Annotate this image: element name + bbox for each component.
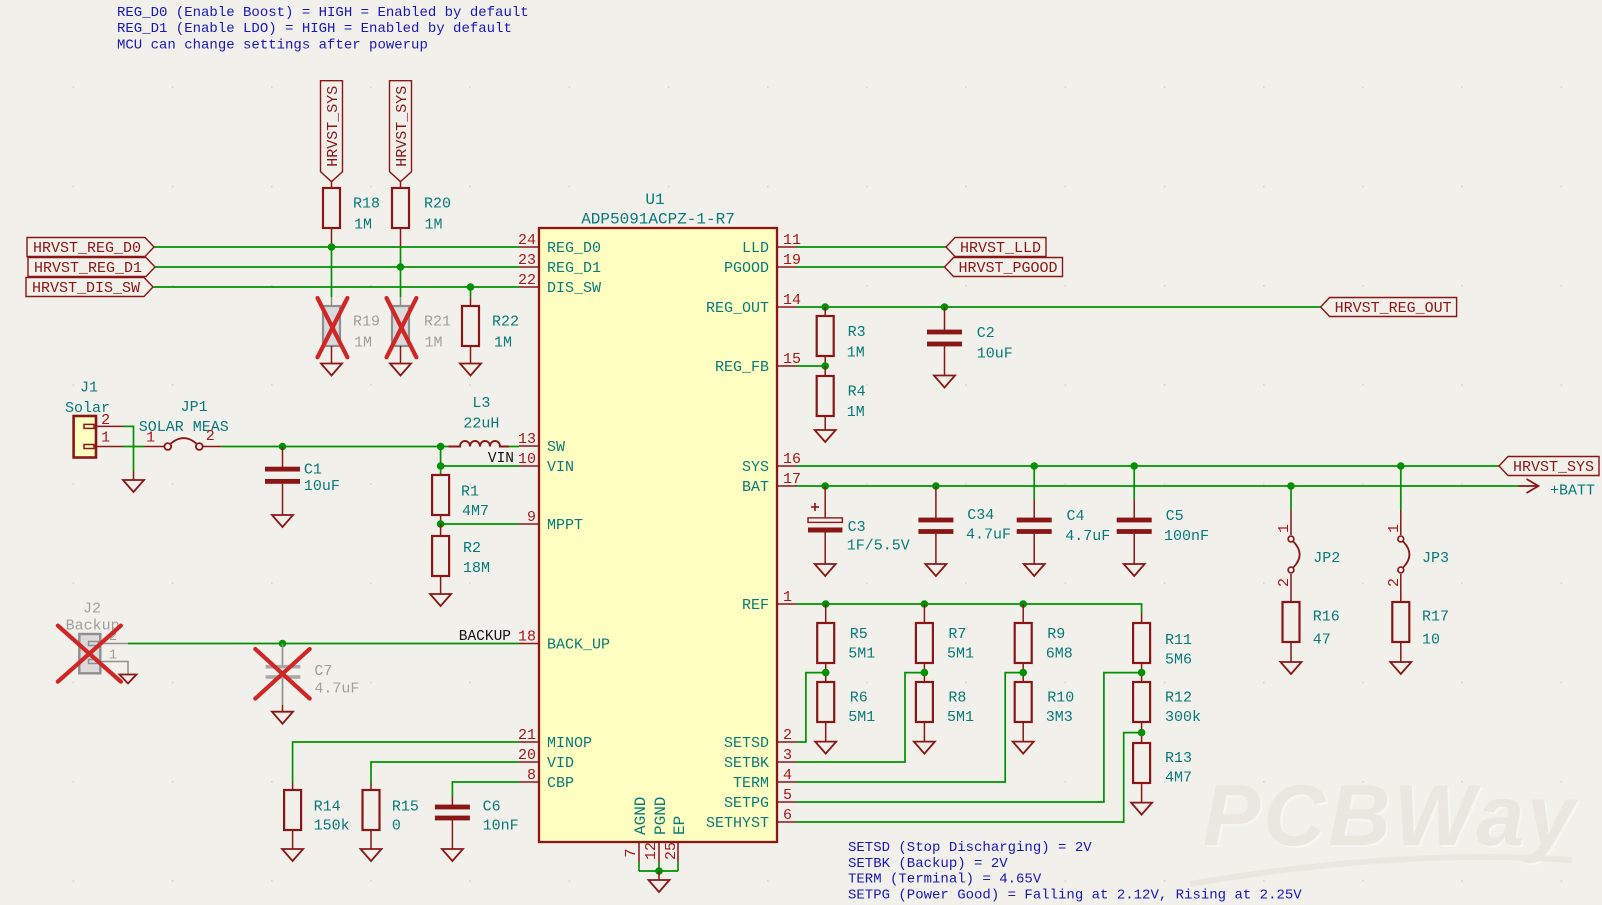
svg-text:J1: J1 (80, 380, 98, 397)
svg-text:2: 2 (1386, 578, 1403, 587)
junction C7 tap (279, 640, 287, 648)
svg-text:R4: R4 (848, 384, 866, 401)
svg-text:R13: R13 (1165, 750, 1192, 767)
svg-text:SETSD (Stop Discharging) = 2V: SETSD (Stop Discharging) = 2V (848, 840, 1092, 856)
C7 ground stub (282, 705, 284, 712)
svg-text:22: 22 (518, 272, 536, 289)
junction REF at x=1023.2 (1019, 600, 1027, 608)
ground under R4 (815, 430, 836, 442)
ground under R17 (1390, 662, 1411, 674)
svg-text:JP3: JP3 (1422, 550, 1449, 567)
junction C1 tap (279, 443, 287, 451)
U1 pin 18 BACK_UP (left) (518, 629, 610, 654)
junction DIS_SW/R22 (467, 283, 475, 291)
svg-text:6: 6 (783, 807, 792, 824)
wire MPPT to pin 9 (441, 523, 519, 525)
U1 pin 23 REG_D1 (left) (518, 252, 601, 277)
svg-text:R1: R1 (461, 484, 479, 501)
U1 pin 2 SETSD (right) (724, 727, 797, 752)
wire J2 to pin 18 BACK_UP (128, 643, 519, 645)
net label VIN (488, 451, 514, 467)
svg-text:R7: R7 (948, 626, 966, 643)
resistor R15 (363, 783, 419, 849)
svg-text:HRVST_REG_D1: HRVST_REG_D1 (34, 260, 142, 277)
junction SYS/JP3 (1397, 462, 1405, 470)
resistor R20 (392, 182, 451, 248)
junction BAT/C34 (932, 482, 940, 490)
wire REG_D0 net down to R19 (331, 247, 333, 297)
svg-text:PGOOD: PGOOD (724, 260, 769, 277)
svg-text:8: 8 (527, 767, 536, 784)
svg-text:DIS_SW: DIS_SW (547, 280, 601, 297)
ground under C1 (272, 515, 293, 527)
wire JP1 to L3 (VIN node) (222, 446, 453, 448)
net label HRVST_PGOOD (945, 258, 1063, 277)
ground under U1 (649, 880, 670, 892)
svg-text:1: 1 (783, 589, 792, 606)
net label HRVST_REG_OUT (1321, 298, 1457, 317)
svg-text:L3: L3 (472, 395, 490, 412)
solder jumper JP2 (1276, 486, 1340, 602)
wire pin 1 REF rail (797, 604, 1142, 613)
wire R11/R12 tap to pin 5 (797, 673, 1142, 802)
U1 pin 16 SYS (right) (742, 451, 801, 476)
U1 pin 13 SW (left) (518, 431, 565, 456)
svg-text:HRVST_DIS_SW: HRVST_DIS_SW (32, 280, 140, 297)
wire VIN to pin 10 (441, 465, 519, 467)
U1 pin 12 PGND (bottom) (643, 797, 670, 871)
J1 pin 1 stub (96, 430, 123, 447)
resistor R6 (817, 682, 875, 742)
ground at J2 pin 1 (120, 675, 137, 684)
resistor R10 (1015, 682, 1075, 742)
wire R20 to REG_D1 net (400, 248, 402, 267)
svg-text:1M: 1M (354, 217, 372, 234)
ground under C4 (1024, 564, 1045, 576)
J1 pin 2 stub (96, 412, 123, 429)
svg-text:REG_D0: REG_D0 (547, 240, 601, 257)
ground under C7 (272, 712, 293, 724)
U1 pin 15 REG_FB (right) (715, 351, 801, 376)
svg-text:1M: 1M (425, 217, 443, 234)
svg-text:4M7: 4M7 (462, 503, 489, 520)
wire R5/R6 tap to pin 2 (797, 673, 826, 742)
ground under R10 (1013, 742, 1034, 754)
svg-text:4.7uF: 4.7uF (966, 527, 1011, 544)
svg-text:SETBK (Backup) = 2V: SETBK (Backup) = 2V (848, 856, 1008, 872)
wire J1 pin2 to ground (123, 426, 134, 471)
svg-text:MINOP: MINOP (547, 735, 592, 752)
svg-text:47: 47 (1313, 632, 1331, 649)
junction SYS/C5 (1130, 462, 1138, 470)
svg-text:VID: VID (547, 755, 574, 772)
resistor R1 (432, 466, 489, 524)
wire HRVST_REG_D1 to pin 23 (155, 266, 519, 268)
wire DIS_SW net down to R22 (470, 287, 472, 297)
svg-text:C4: C4 (1067, 508, 1085, 525)
resistor R8 (916, 682, 974, 742)
svg-text:1M: 1M (354, 335, 372, 352)
svg-text:C2: C2 (977, 325, 995, 342)
svg-text:3: 3 (783, 747, 792, 764)
junction R7/R8 (921, 669, 929, 677)
svg-text:4.7uF: 4.7uF (1065, 528, 1110, 545)
svg-text:300k: 300k (1165, 709, 1201, 726)
svg-text:HRVST_REG_D0: HRVST_REG_D0 (33, 240, 141, 257)
svg-text:10uF: 10uF (977, 346, 1013, 363)
wire pin 16 SYS rail (797, 465, 1500, 467)
wire pin 19 to HRVST_PGOOD (797, 266, 945, 268)
capacitor C7 (DNP) (266, 644, 360, 706)
svg-text:12: 12 (643, 842, 660, 860)
svg-text:J2: J2 (83, 601, 101, 618)
solder jumper JP3 (1386, 466, 1449, 602)
svg-text:REG_D0 (Enable Boost) = HIGH =: REG_D0 (Enable Boost) = HIGH = Enabled b… (117, 5, 529, 21)
svg-text:HRVST_REG_OUT: HRVST_REG_OUT (1335, 300, 1452, 317)
svg-text:HRVST_SYS: HRVST_SYS (1513, 459, 1594, 476)
svg-text:MPPT: MPPT (547, 517, 583, 534)
wire REG_D1 net down to R21 (400, 267, 402, 297)
svg-text:1: 1 (1386, 524, 1403, 533)
U1 pin 10 VIN (left) (518, 451, 574, 476)
svg-text:SETPG: SETPG (724, 795, 769, 812)
svg-text:24: 24 (518, 232, 536, 249)
svg-text:5M1: 5M1 (848, 646, 875, 663)
svg-text:BAT: BAT (742, 479, 769, 496)
svg-text:1F/5.5V: 1F/5.5V (847, 538, 910, 555)
net label HRVST_REG_D1 (28, 258, 155, 277)
net label HRVST_LLD (946, 238, 1046, 257)
wire HRVST_REG_D0 to pin 24 (154, 246, 519, 248)
capacitor C5 (1117, 466, 1209, 564)
svg-text:2: 2 (206, 428, 215, 445)
resistor R5 (817, 604, 875, 682)
svg-text:PCBWay: PCBWay (1203, 768, 1579, 864)
svg-text:REG_OUT: REG_OUT (706, 300, 769, 317)
wire AGND/PGND/EP tie (639, 870, 678, 872)
U1 pin 1 REF (right) (742, 589, 797, 614)
svg-text:ADP5091ACPZ-1-R7: ADP5091ACPZ-1-R7 (581, 211, 735, 229)
junction MPPT (437, 520, 445, 528)
svg-text:2: 2 (101, 412, 110, 429)
DNP cross over R19 (318, 298, 348, 357)
svg-text:25: 25 (663, 842, 680, 860)
J1 pin2 ground stub (133, 471, 135, 480)
U1 pin 4 TERM (right) (733, 767, 797, 792)
junction REG_FB (821, 362, 829, 370)
capacitor C1 (265, 447, 340, 516)
svg-text:C6: C6 (483, 799, 501, 816)
svg-text:1: 1 (101, 430, 110, 447)
svg-text:+BATT: +BATT (1550, 483, 1595, 500)
DNP cross over R21 (387, 298, 417, 357)
wire pin 15 REG_FB to R3/R4 (797, 365, 826, 367)
svg-text:SETHYST: SETHYST (706, 815, 769, 832)
svg-text:1: 1 (146, 430, 155, 447)
svg-text:CBP: CBP (547, 775, 574, 792)
svg-text:R16: R16 (1313, 609, 1340, 626)
svg-text:R14: R14 (314, 799, 341, 816)
junction REF at x=924.4 (921, 600, 929, 608)
svg-text:2: 2 (783, 727, 792, 744)
capacitor C2 (927, 307, 1013, 376)
junction VIN (437, 462, 445, 470)
svg-text:5: 5 (783, 787, 792, 804)
power flag HRVST_SYS (above R18) (321, 81, 343, 182)
capacitor C3 1F/5.5V (polarized) (808, 486, 910, 564)
U1 pin 8 CBP (left) (519, 767, 574, 792)
svg-text:23: 23 (518, 252, 536, 269)
capacitor C6 (435, 797, 519, 849)
svg-text:1: 1 (109, 648, 117, 664)
net label HRVST_REG_D0 (27, 238, 154, 257)
svg-text:R18: R18 (353, 196, 380, 213)
svg-text:VIN: VIN (488, 451, 514, 467)
power flag HRVST_SYS (above R20) (390, 81, 412, 182)
svg-text:10: 10 (1422, 632, 1440, 649)
connector J2 Backup (DNP) (66, 601, 128, 675)
PCBWay watermark (1190, 768, 1581, 884)
ground at J1 pin 2 (123, 480, 144, 492)
note: REG_D0/REG_D1/MCU comments (blue text top-left) (117, 5, 529, 53)
junction REG_D1/R20/R21 (397, 263, 405, 271)
U1 pin 21 MINOP (left) (518, 727, 592, 752)
junction SYS/C4 (1030, 462, 1038, 470)
wire pin 8 CBP to C6 (452, 782, 519, 797)
svg-text:VIN: VIN (547, 459, 574, 476)
svg-text:4: 4 (783, 767, 792, 784)
wire pin 14 REG_OUT to HRVST_REG_OUT (797, 306, 1321, 308)
net label BACKUP (459, 629, 511, 645)
resistor R16 (1283, 602, 1340, 662)
svg-text:SW: SW (547, 439, 565, 456)
svg-text:6M8: 6M8 (1046, 646, 1073, 663)
ground under C6 (442, 849, 463, 861)
svg-text:R22: R22 (492, 314, 519, 331)
capacitor C4 (1017, 466, 1111, 564)
svg-text:PGND: PGND (652, 797, 670, 835)
connector J1 Solar (65, 380, 110, 458)
svg-text:R6: R6 (850, 690, 868, 707)
svg-text:10nF: 10nF (483, 818, 519, 835)
svg-text:5M6: 5M6 (1165, 652, 1192, 669)
svg-text:5M1: 5M1 (947, 646, 974, 663)
ground under C34 (925, 564, 946, 576)
DNP cross over J2 (58, 626, 121, 682)
svg-text:JP2: JP2 (1313, 550, 1340, 567)
svg-text:18M: 18M (463, 560, 490, 577)
svg-text:5M1: 5M1 (848, 709, 875, 726)
svg-text:HRVST_PGOOD: HRVST_PGOOD (959, 260, 1058, 277)
svg-text:TERM: TERM (733, 775, 769, 792)
U1 pin 6 SETHYST (right) (706, 807, 797, 832)
svg-text:REF: REF (742, 597, 769, 614)
U1 pin 22 DIS_SW (left) (518, 272, 601, 297)
svg-text:13: 13 (518, 431, 536, 448)
ground under R8 (914, 742, 935, 754)
U1 pin 17 BAT (right) (742, 471, 801, 496)
resistor R4 (817, 366, 866, 430)
junction L3/R1 tap (437, 443, 445, 451)
junction R12/R13 (1138, 729, 1146, 737)
svg-text:10: 10 (518, 451, 536, 468)
resistor R17 (1392, 602, 1449, 662)
svg-text:BACK_UP: BACK_UP (547, 637, 610, 654)
resistor R3 (817, 307, 866, 366)
svg-text:REG_D1: REG_D1 (547, 260, 601, 277)
svg-text:9: 9 (527, 509, 536, 526)
svg-text:R15: R15 (392, 799, 419, 816)
svg-text:R19: R19 (353, 314, 380, 331)
solder jumper JP1 SOLAR MEAS (139, 399, 229, 450)
svg-text:1M: 1M (494, 335, 512, 352)
svg-text:R2: R2 (463, 540, 481, 557)
svg-text:REG_D1 (Enable LDO) = HIGH = E: REG_D1 (Enable LDO) = HIGH = Enabled by … (117, 21, 512, 37)
junction REG_OUT/R3 (821, 303, 829, 311)
svg-text:R3: R3 (848, 324, 866, 341)
svg-text:SETBK: SETBK (724, 755, 769, 772)
svg-text:C7: C7 (314, 663, 332, 680)
ground under R13 (1131, 803, 1152, 815)
wire pin 11 to HRVST_LLD (797, 246, 947, 248)
U1 pin 5 SETPG (right) (724, 787, 797, 812)
svg-text:HRVST_LLD: HRVST_LLD (960, 240, 1041, 257)
ground under R19 (321, 364, 342, 376)
wire pin 17 BAT rail (797, 485, 1519, 487)
svg-text:22uH: 22uH (463, 416, 499, 433)
svg-text:2: 2 (1276, 578, 1293, 587)
svg-text:HRVST_SYS: HRVST_SYS (394, 86, 411, 167)
wire VIN node down to R1 (440, 447, 442, 467)
wire J1 pin1 to JP1 (123, 446, 144, 448)
svg-text:4.7uF: 4.7uF (314, 681, 359, 698)
net label HRVST_DIS_SW (26, 278, 153, 297)
junction REG_OUT/C2 (941, 303, 949, 311)
svg-text:C34: C34 (967, 507, 994, 524)
svg-text:4M7: 4M7 (1165, 770, 1192, 787)
hier arrow +BATT (1518, 479, 1595, 500)
svg-text:LLD: LLD (742, 240, 769, 257)
resistor R18 (323, 182, 380, 247)
svg-text:MCU can change settings after: MCU can change settings after powerup (117, 37, 428, 53)
junction REF at x=825.7 (822, 600, 830, 608)
U1 pin 9 MPPT (left) (519, 509, 583, 534)
U1 pin 11 LLD (right) (742, 232, 801, 257)
wire pin 21 MINOP to R14 (293, 742, 519, 783)
svg-text:SETPG (Power Good) = Falling a: SETPG (Power Good) = Falling at 2.12V, R… (848, 887, 1302, 903)
junction BAT/JP2 (1287, 482, 1295, 490)
junction BAT/C3 (821, 482, 829, 490)
resistor R19 (DNP) (323, 297, 380, 364)
wire pin 20 VID to R15 (371, 762, 519, 783)
resistor R7 (916, 604, 974, 682)
junction R9/R10 (1019, 669, 1027, 677)
svg-text:21: 21 (518, 727, 536, 744)
junction AGND/PGND/EP (655, 867, 663, 875)
svg-text:R8: R8 (948, 690, 966, 707)
svg-text:R11: R11 (1165, 632, 1192, 649)
resistor R11 (1133, 613, 1192, 682)
wire R7/R8 tap to pin 3 (797, 673, 925, 762)
svg-text:20: 20 (518, 747, 536, 764)
U1 pin 24 REG_D0 (left) (518, 232, 601, 257)
resistor R9 (1015, 604, 1073, 682)
svg-text:JP1: JP1 (181, 399, 208, 416)
junction R11/R12 (1138, 669, 1146, 677)
U1 pin 14 REG_OUT (right) (706, 292, 801, 317)
inductor L3 22uH (449, 395, 510, 447)
svg-text:0: 0 (392, 818, 401, 835)
ground under R14 (282, 849, 303, 861)
svg-text:R12: R12 (1165, 690, 1192, 707)
svg-text:U1: U1 (645, 191, 664, 209)
svg-text:3M3: 3M3 (1046, 709, 1073, 726)
svg-text:C1: C1 (304, 462, 322, 479)
wire L3 to pin 13 SW (509, 446, 519, 448)
svg-text:R9: R9 (1047, 626, 1065, 643)
U1 ground stub (658, 871, 660, 880)
svg-text:C3: C3 (848, 519, 866, 536)
capacitor C34 (918, 486, 1011, 564)
svg-text:10uF: 10uF (304, 478, 340, 495)
svg-text:EP: EP (671, 816, 689, 835)
svg-text:7: 7 (623, 848, 640, 857)
U1 pin 20 VID (left) (518, 747, 574, 772)
resistor R22 (462, 297, 519, 364)
ground under R16 (1281, 662, 1302, 674)
svg-text:R20: R20 (424, 196, 451, 213)
op-amp U1 ADP5091ACPZ-1-R7 body (539, 191, 777, 842)
wire R12/R13 tap to pin 6 (797, 733, 1142, 822)
svg-text:150k: 150k (314, 818, 350, 835)
net label HRVST_SYS (right) (1499, 457, 1599, 476)
resistor R21 (DNP) (392, 297, 451, 364)
resistor R12 (1133, 682, 1201, 743)
note: SETSD/SETBK/TERM/SETPG comments (blue text bottom) (848, 840, 1302, 903)
svg-text:1M: 1M (425, 335, 443, 352)
svg-text:5M1: 5M1 (947, 709, 974, 726)
U1 pin 19 PGOOD (right) (724, 252, 801, 277)
DNP cross over C7 (255, 649, 309, 699)
svg-text:1M: 1M (847, 345, 865, 362)
ground under C3 (815, 564, 836, 576)
ground under R15 (361, 849, 382, 861)
U1 pin 25 EP (bottom) (663, 816, 689, 871)
svg-text:TERM (Terminal) = 4.65V: TERM (Terminal) = 4.65V (848, 872, 1042, 888)
svg-text:1M: 1M (847, 404, 865, 421)
resistor R14 (284, 783, 350, 849)
svg-text:C5: C5 (1166, 508, 1184, 525)
svg-text:R10: R10 (1047, 690, 1074, 707)
resistor R2 (432, 524, 490, 594)
ground under C5 (1124, 564, 1145, 576)
ground under R2 (430, 594, 451, 606)
resistor R13 (1133, 743, 1192, 803)
svg-text:R17: R17 (1422, 609, 1449, 626)
ground under R6 (815, 742, 836, 754)
junction R5/R6 (822, 669, 830, 677)
svg-text:18: 18 (518, 629, 536, 646)
U1 pin 3 SETBK (right) (724, 747, 797, 772)
svg-text:100nF: 100nF (1164, 528, 1209, 545)
svg-text:R21: R21 (424, 314, 451, 331)
svg-text:HRVST_SYS: HRVST_SYS (325, 86, 342, 167)
U1 pin 7 AGND (bottom) (623, 797, 650, 871)
wire HRVST_DIS_SW to pin 22 (153, 286, 519, 288)
wire R9/R10 tap to pin 4 (797, 673, 1024, 782)
ground under R21 (390, 364, 411, 376)
junction REG_D0/R18/R19 (328, 243, 336, 251)
